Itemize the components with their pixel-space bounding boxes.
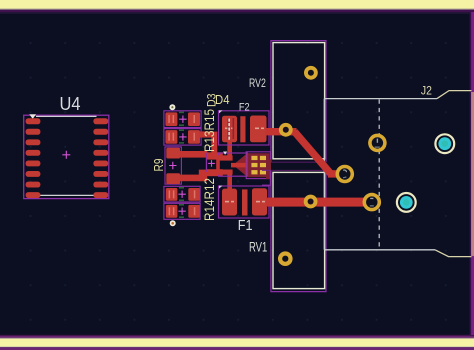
wire F1 to J2 pin2 (thick) xyxy=(266,198,372,207)
U4 silkscreen bottom line xyxy=(40,194,95,196)
D4 body triangle xyxy=(233,154,247,176)
U4 courtyard xyxy=(24,115,109,198)
D4 right bar xyxy=(246,153,250,176)
resistor R14 xyxy=(164,186,200,202)
varistor RV2 xyxy=(271,41,326,163)
diode D4 (SOT footprint) xyxy=(216,152,250,177)
connector J2 SMD tab xyxy=(246,152,271,185)
wire R9 top to D3 top xyxy=(180,151,208,158)
J2 hole (teal) top xyxy=(435,134,454,153)
J2 pad 3 xyxy=(336,165,355,184)
wire riser D3 top to R15 xyxy=(211,132,217,154)
U4 left pads xyxy=(26,118,41,198)
wire D3 top to D4 xyxy=(217,152,223,160)
svg-text:U4: U4 xyxy=(60,94,81,114)
D4 pin1 marker xyxy=(223,152,227,155)
wire R9 bottom to D3 bottom xyxy=(180,175,202,182)
fuse F1 xyxy=(219,186,270,218)
via (white) above R13 xyxy=(169,104,175,110)
U4 anchor cross xyxy=(62,151,70,159)
RV1 pad bottom xyxy=(278,251,293,266)
svg-text:RV1: RV1 xyxy=(249,239,267,255)
resistor R9 (vertical) xyxy=(165,147,181,184)
J2 hole (teal) bottom xyxy=(397,193,416,212)
J2 pad 2 xyxy=(363,193,382,212)
svg-text:R13R15: R13R15 xyxy=(202,109,217,152)
svg-text:D4: D4 xyxy=(215,93,230,107)
D4 left bar xyxy=(216,155,220,174)
IC U4 xyxy=(24,94,109,199)
wire D3 bottom to D4 xyxy=(217,169,223,176)
svg-text:RV2: RV2 xyxy=(249,76,266,90)
svg-text:R14R12: R14R12 xyxy=(202,178,217,221)
via (white/orange) below R12 xyxy=(170,220,176,226)
resistor R13 xyxy=(164,111,201,128)
U4 silkscreen top line xyxy=(36,115,97,117)
wire through D4 xyxy=(231,163,248,168)
wire F2 to via xyxy=(265,128,297,135)
RV1 pad top (via on trace) xyxy=(304,195,318,209)
D4 pad upper-left xyxy=(220,155,233,160)
wire from F2 down to D4 xyxy=(227,142,232,158)
svg-text:J2: J2 xyxy=(421,84,432,98)
svg-text:F2: F2 xyxy=(239,102,250,114)
RV2 pad bottom (via on trace) xyxy=(279,123,293,137)
svg-text:F1: F1 xyxy=(238,218,253,234)
J2 pad 1 xyxy=(368,134,387,153)
D4 pad lower-left xyxy=(220,170,233,175)
U4 right pads xyxy=(93,118,108,198)
svg-text:R9: R9 xyxy=(151,159,166,172)
varistor RV1 xyxy=(271,170,326,291)
page margin band top xyxy=(0,0,474,9)
page border right xyxy=(470,12,472,335)
connector J2 body outline xyxy=(324,91,471,257)
page margin band bottom xyxy=(0,335,474,336)
U4 pin1 marker xyxy=(29,114,36,119)
wire from D4 down to F1 xyxy=(227,174,232,190)
wire diagonal to J2 pin3 xyxy=(295,132,332,174)
resistor R12 xyxy=(164,203,200,219)
resistor R15 xyxy=(164,129,201,146)
diode D3 (vertical) xyxy=(206,152,217,176)
fuse F2 xyxy=(219,110,270,145)
RV2 pad top xyxy=(304,66,318,80)
